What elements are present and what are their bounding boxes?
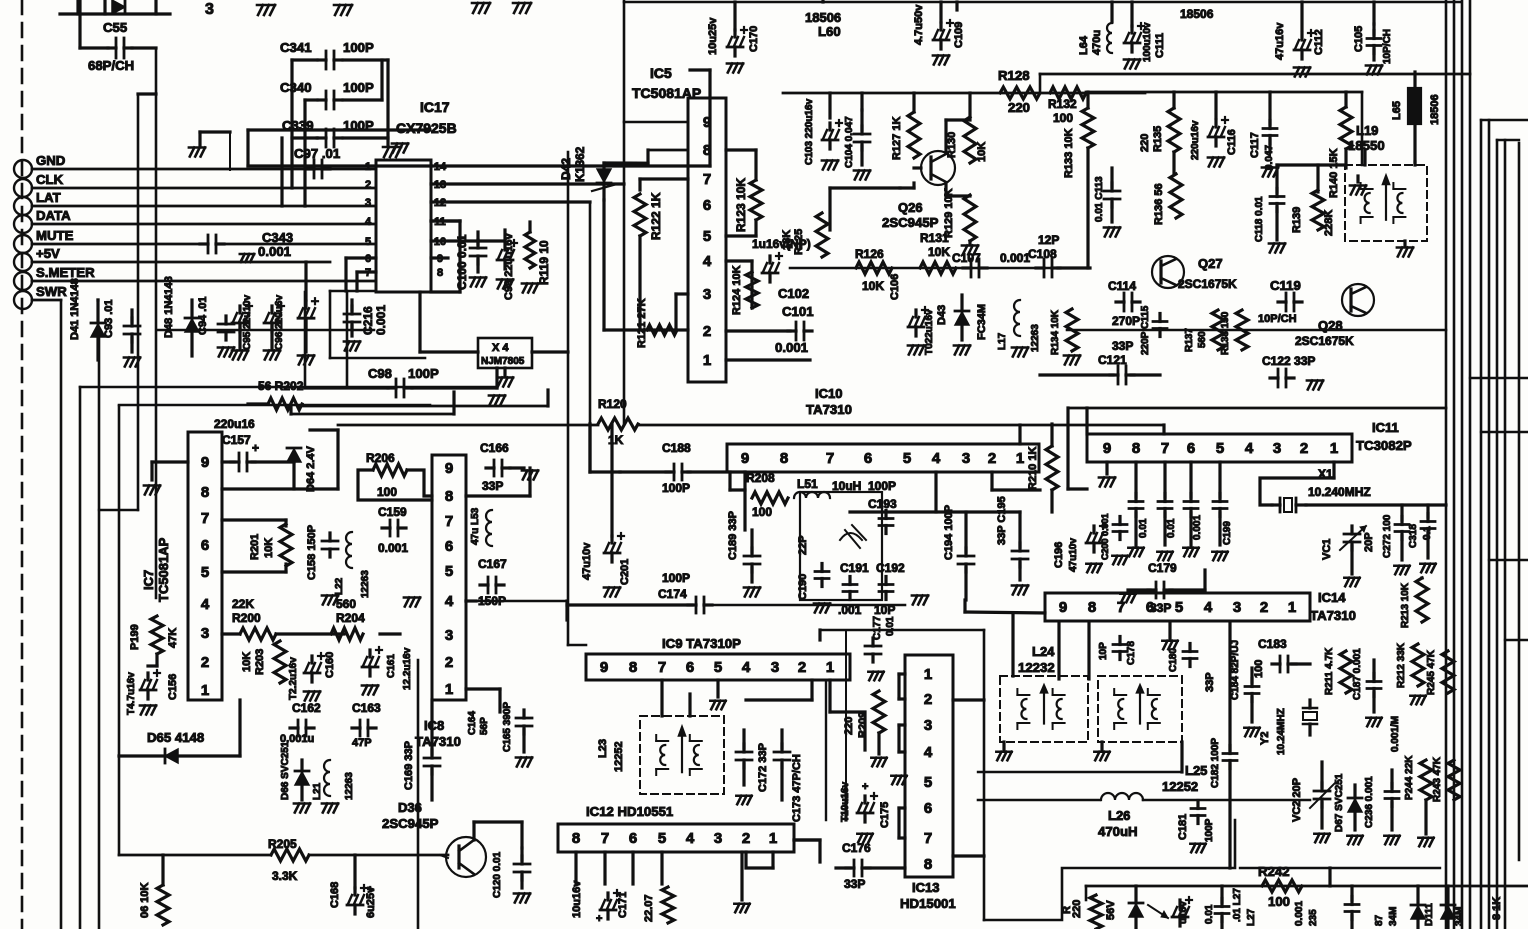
- inductor L53: [486, 510, 492, 546]
- svg-text:220u16v: 220u16v: [1190, 120, 1201, 160]
- wire LAT bus: [32, 205, 376, 208]
- svg-text:T10u16v: T10u16v: [840, 782, 851, 822]
- IC17 pin 8 number: [437, 267, 443, 279]
- svg-text:C190: C190: [797, 574, 809, 600]
- capacitor C177: [865, 638, 881, 662]
- capacitor C182: [1223, 746, 1237, 769]
- wire D41 top: [96, 298, 99, 301]
- svg-text:u16v: u16v: [1178, 901, 1189, 924]
- resistor R122 label: [649, 192, 663, 240]
- capacitor labels under IC11: [1138, 515, 1233, 545]
- resistor R123 label: [734, 178, 748, 232]
- svg-text:12263: 12263: [1030, 324, 1041, 352]
- IC IC12 label: [586, 804, 673, 819]
- resistor R125: [816, 213, 828, 257]
- wire R210: [1050, 424, 1053, 512]
- svg-text:1: 1: [826, 659, 834, 676]
- wire R124: [726, 261, 752, 308]
- ground (C189): [744, 588, 760, 597]
- svg-text:6: 6: [201, 537, 209, 554]
- svg-text:R201: R201: [249, 534, 261, 560]
- svg-text:TA7310: TA7310: [1310, 608, 1356, 623]
- svg-text:C201: C201: [619, 559, 631, 585]
- svg-text:4: 4: [924, 744, 933, 761]
- svg-text:3: 3: [365, 197, 371, 209]
- wire L64 stub: [1112, 2, 1132, 26]
- svg-text:C102: C102: [778, 286, 809, 301]
- bus vertical 9: [1518, 143, 1521, 860]
- resistor P244: [1420, 760, 1432, 800]
- svg-text:D67 SVC251: D67 SVC251: [1334, 773, 1345, 832]
- crystal X1: [1272, 498, 1306, 512]
- inductor L51: [794, 492, 830, 498]
- wire L65: [1413, 72, 1416, 162]
- svg-text:C122 33P: C122 33P: [1262, 354, 1315, 368]
- svg-text:0.001: 0.001: [1294, 901, 1305, 926]
- wire IC14 pin3 drop: [1228, 623, 1231, 868]
- wire vertical x156: [155, 48, 158, 598]
- wire R127 col: [914, 93, 970, 188]
- wire IC5 pin3 area: [676, 294, 688, 330]
- svg-text:5: 5: [658, 830, 666, 847]
- capacitor C171 label: [617, 892, 629, 918]
- svg-text:C119: C119: [1270, 278, 1301, 293]
- svg-text:470u: 470u: [1091, 30, 1103, 55]
- svg-text:3: 3: [962, 450, 970, 467]
- resistor R120 value: [608, 433, 624, 447]
- capacitor C200: [1113, 517, 1127, 540]
- wire horizontal y330: [158, 329, 374, 332]
- svg-text:IC5: IC5: [650, 65, 672, 81]
- capacitor C163 value: [352, 737, 372, 749]
- resistor R196: [157, 855, 169, 925]
- svg-text:HD15001: HD15001: [900, 896, 956, 911]
- svg-text:100: 100: [752, 505, 772, 519]
- wire C188: [590, 424, 745, 472]
- capacitor C188 value: [662, 481, 690, 495]
- svg-text:33P: 33P: [1112, 339, 1133, 353]
- svg-text:6: 6: [686, 659, 694, 676]
- svg-text:R206: R206: [366, 451, 395, 465]
- svg-text:R245 47K: R245 47K: [1426, 649, 1437, 695]
- svg-text:100: 100: [1253, 660, 1265, 678]
- capacitor C156 name: [167, 674, 179, 700]
- svg-text:C158 150P: C158 150P: [306, 525, 318, 580]
- capacitor C173 label: [791, 754, 803, 822]
- IC IC14 TA7310: [1045, 593, 1310, 621]
- capacitor C172 caps: [736, 730, 790, 800]
- wire CLK bus: [32, 187, 376, 190]
- diode D41: [91, 300, 105, 360]
- capacitor C159: [382, 520, 406, 536]
- IC IC10 label: [806, 386, 852, 417]
- inductor L21: [324, 760, 330, 796]
- svg-text:R127 1K: R127 1K: [891, 117, 903, 160]
- capacitor C171 (electrolytic): [600, 890, 620, 919]
- svg-text:12252: 12252: [1162, 779, 1198, 794]
- svg-text:.01 L27: .01 L27: [1232, 888, 1243, 922]
- capacitor C97: [306, 160, 330, 178]
- svg-text:1: 1: [703, 352, 711, 369]
- svg-text:VC1: VC1: [1321, 539, 1333, 560]
- wire IC17 pin7 stub: [357, 272, 376, 291]
- IC IC13 HD15001: [905, 655, 953, 877]
- svg-text:IC7: IC7: [141, 570, 156, 590]
- resistor R202 label: [258, 379, 304, 393]
- svg-text:9: 9: [1103, 440, 1111, 457]
- diode D41 label: [69, 278, 81, 340]
- wire IC8 pin8: [466, 468, 530, 496]
- svg-text:6: 6: [864, 450, 872, 467]
- svg-text:2: 2: [924, 691, 932, 708]
- svg-text:0.01: 0.01: [1138, 518, 1149, 538]
- wire R120 long: [338, 425, 1164, 434]
- svg-text:2SC945P: 2SC945P: [382, 816, 439, 831]
- bus vertical 5: [1480, 120, 1483, 929]
- wire L26 row: [978, 799, 1310, 802]
- ground (C179 l): [1120, 594, 1135, 603]
- svg-text:12P: 12P: [1038, 233, 1059, 247]
- svg-text:228K: 228K: [1323, 210, 1335, 236]
- wire X1 right: [1306, 503, 1446, 506]
- wire IC10 pin4 drop: [850, 472, 1020, 512]
- wire R206 box: [358, 470, 432, 500]
- ground (C95): [232, 324, 248, 360]
- svg-text:L65: L65: [1391, 101, 1403, 120]
- net label +5V: [36, 246, 60, 261]
- svg-text:47u10v: 47u10v: [1068, 538, 1079, 572]
- svg-text:9: 9: [703, 114, 711, 131]
- bus vertical 4: [1469, 0, 1472, 929]
- capacitor C118 label: [1254, 196, 1265, 242]
- svg-text:4: 4: [932, 450, 941, 467]
- capacitor C114 value: [1112, 314, 1140, 328]
- wire bot right net: [1240, 868, 1440, 886]
- wire R200 row: [222, 632, 400, 635]
- resistor R213: [1416, 578, 1428, 622]
- resistor R206 label: [366, 451, 395, 465]
- capacitor C192: [879, 577, 893, 600]
- resistor R132: [1050, 87, 1086, 99]
- crystal Y2: [1303, 700, 1317, 735]
- capacitor C? electrolytic nr IC5: [762, 253, 782, 282]
- capacitor VC2 (trimmer): [1310, 762, 1336, 828]
- svg-text:3: 3: [1233, 599, 1241, 616]
- ground (C195): [1012, 586, 1028, 595]
- wire IC5 pin8 right: [726, 150, 756, 180]
- svg-text:7: 7: [601, 830, 609, 847]
- IF transformer L25: [1098, 676, 1182, 742]
- svg-text:1: 1: [1288, 599, 1296, 616]
- top-left cut box: [60, 0, 170, 14]
- svg-text:9: 9: [445, 460, 453, 477]
- wire IC13 left col: [845, 630, 847, 820]
- svg-text:C104 0.047: C104 0.047: [844, 116, 855, 168]
- svg-text:4: 4: [686, 830, 695, 847]
- svg-text:D41 1N4148: D41 1N4148: [69, 278, 81, 340]
- svg-text:470uH: 470uH: [1098, 824, 1138, 839]
- ground (D67): [1347, 836, 1362, 845]
- resistor R242 value: [1268, 894, 1290, 909]
- svg-text:1: 1: [445, 681, 453, 698]
- svg-text:0.001: 0.001: [374, 305, 388, 335]
- svg-text:C187 0.001: C187 0.001: [1352, 648, 1363, 700]
- svg-text:12263: 12263: [360, 570, 371, 598]
- svg-text:C180: C180: [1168, 648, 1179, 672]
- wire IC7 pin9: [152, 462, 188, 480]
- ground (X4): [497, 368, 513, 387]
- wire L23 top: [662, 680, 690, 716]
- svg-text:L60: L60: [818, 24, 841, 39]
- svg-text:0.01: 0.01: [885, 616, 896, 636]
- capacitor C118: [1270, 165, 1284, 240]
- svg-text:R135: R135: [1152, 126, 1164, 152]
- IC IC7 TC5081AP: [188, 432, 222, 700]
- wire X1: [1260, 462, 1334, 505]
- wire R133 col: [1086, 92, 1089, 268]
- diode D65 label: [147, 730, 204, 745]
- capacitor C160 name: [324, 652, 336, 678]
- wire IC17 pin14: [248, 130, 431, 166]
- IC IC17 CX7925B: [376, 160, 431, 292]
- ground (top c): [472, 3, 490, 13]
- IC IC5 label: [632, 65, 701, 101]
- svg-text:20P: 20P: [1363, 532, 1375, 552]
- svg-text:7: 7: [924, 830, 932, 847]
- inductor L22: [346, 532, 352, 568]
- label C?0.01: [1204, 904, 1215, 924]
- svg-text:6u25v: 6u25v: [365, 886, 377, 918]
- wire C109 stub: [941, 2, 957, 22]
- ground (IC13 mid): [891, 776, 906, 785]
- capacitor C101 value: [775, 340, 808, 355]
- connector pad MUTE: [14, 235, 32, 253]
- ground (R210): [1099, 462, 1115, 487]
- svg-text:IC8: IC8: [424, 718, 444, 733]
- svg-text:C159: C159: [378, 505, 407, 519]
- svg-text:C160: C160: [324, 652, 336, 678]
- capacitor C99 (electrolytic): [497, 240, 517, 269]
- capacitor C318: [1421, 505, 1435, 558]
- capacitor VC1 label: [1321, 539, 1333, 560]
- connector pad CLK: [14, 179, 32, 197]
- resistor R120 label: [598, 397, 627, 411]
- wire cap ladder right: [343, 60, 388, 145]
- capacitor C184 label: [1230, 640, 1241, 700]
- ground (C160): [304, 692, 320, 701]
- svg-text:L17: L17: [997, 332, 1008, 350]
- resistor R201: [280, 524, 292, 566]
- svg-text:C118 0.01: C118 0.01: [1254, 196, 1265, 242]
- capacitor C162 value: [280, 733, 314, 745]
- capacitor C170 (electrolytic): [727, 27, 747, 56]
- IC17 pin 11 number: [434, 216, 446, 228]
- ground (C111): [1124, 60, 1140, 69]
- capacitor C119 label: [1270, 278, 1301, 293]
- wire C98: [305, 368, 497, 388]
- svg-text:Q27: Q27: [1198, 256, 1223, 271]
- svg-text:0.001: 0.001: [1192, 515, 1203, 540]
- capacitor C161 (electrolytic): [362, 647, 382, 676]
- svg-text:10u25v: 10u25v: [707, 17, 719, 55]
- svg-text:C114: C114: [1108, 279, 1136, 293]
- wire horizontal y387: [80, 386, 497, 389]
- inductor L64 label: [1078, 30, 1103, 55]
- ground (top a): [257, 5, 275, 15]
- inductor L21 label: [312, 782, 323, 800]
- inductor L65 label: [1391, 101, 1403, 120]
- IC IC8 TA7310: [432, 455, 466, 700]
- capacitor C193: [879, 511, 893, 534]
- label R8 1K: [1491, 897, 1503, 920]
- svg-text:C165 390P: C165 390P: [502, 702, 513, 752]
- svg-text:IC11: IC11: [1372, 420, 1399, 435]
- svg-text:R126: R126: [855, 247, 884, 261]
- diode D66 (varicap): [295, 760, 309, 800]
- wire C173 col: [746, 680, 865, 750]
- ground (pin14 stub): [392, 144, 408, 153]
- capacitor C121 label: [1098, 339, 1133, 367]
- svg-text:0.001: 0.001: [775, 340, 808, 355]
- svg-text:SWR: SWR: [36, 284, 67, 299]
- inductor L61 label: [1180, 7, 1214, 21]
- capacitor C111 label: [1142, 22, 1166, 62]
- ground (u11 d): [1212, 552, 1227, 561]
- capacitor C113 label: [1094, 176, 1105, 222]
- svg-text:235: 235: [1308, 909, 1319, 926]
- capacitor C? (electrolytic 3rd): [298, 298, 318, 327]
- svg-text:6: 6: [1146, 599, 1154, 616]
- wire Q26 base left: [830, 188, 914, 230]
- capacitor C122: [1270, 369, 1294, 387]
- svg-text:C111: C111: [1154, 33, 1166, 58]
- svg-text:6: 6: [445, 538, 453, 555]
- svg-text:100P: 100P: [343, 80, 374, 95]
- svg-text:C343: C343: [262, 230, 293, 245]
- IC IC14 label: [1310, 590, 1356, 623]
- svg-text:D111: D111: [1424, 903, 1435, 926]
- svg-text:Y2: Y2: [1259, 732, 1271, 745]
- ground (C170): [727, 64, 743, 73]
- label 0.001 235: [1294, 901, 1319, 926]
- inductor L26 label: [1098, 808, 1138, 839]
- diode D42: [592, 163, 617, 200]
- wire IC5 pin2 right: [726, 329, 790, 332]
- svg-text:0.001: 0.001: [378, 541, 408, 555]
- svg-text:C109: C109: [953, 22, 965, 48]
- capacitor C103 (electrolytic): [822, 120, 842, 149]
- capacitor C166 label: [480, 441, 509, 455]
- svg-text:R213 10K: R213 10K: [1400, 582, 1411, 628]
- resistor R203 label: [241, 649, 266, 675]
- svg-text:9: 9: [741, 450, 749, 467]
- IC IC11 TC3082P: [1087, 434, 1352, 462]
- svg-text:5: 5: [703, 228, 711, 245]
- ground (C172): [736, 796, 751, 805]
- svg-text:TA7310: TA7310: [415, 734, 461, 749]
- crystal Y2 label: [1259, 708, 1287, 755]
- svg-text:L21: L21: [312, 782, 323, 800]
- svg-text:6: 6: [924, 800, 932, 817]
- svg-text:C164: C164: [467, 711, 478, 735]
- resistor R135 label: [1139, 126, 1164, 152]
- capacitor C101: [788, 322, 812, 340]
- IC IC9 label: [662, 636, 741, 651]
- svg-text:3: 3: [445, 627, 453, 644]
- svg-text:7: 7: [658, 659, 666, 676]
- svg-text:0.01: 0.01: [1166, 518, 1177, 538]
- ground (C117): [1262, 168, 1278, 177]
- svg-text:C192: C192: [876, 561, 905, 575]
- resistor R204 label: [336, 597, 365, 625]
- wire R139 top: [1277, 165, 1344, 192]
- capacitor Cc: [1215, 886, 1229, 929]
- wire IC8 pin1 right: [466, 689, 500, 712]
- capacitor C184: [1245, 668, 1259, 722]
- svg-text:C162: C162: [292, 701, 321, 715]
- svg-text:2: 2: [1260, 599, 1268, 616]
- ground (C318): [1420, 564, 1435, 573]
- ground (u11 a): [1128, 548, 1143, 557]
- svg-text:5: 5: [445, 563, 453, 580]
- bus stub a: [1481, 119, 1528, 121]
- wire vertical x119: [118, 406, 121, 855]
- label T10u16v: [840, 781, 868, 822]
- wire vertical x624: [623, 0, 626, 424]
- resistor R206: [373, 464, 407, 476]
- capacitor C339 label: [282, 118, 314, 133]
- capacitor C158: [322, 533, 338, 557]
- svg-text:K1362: K1362: [573, 146, 587, 182]
- wire IC12 right step: [794, 840, 820, 862]
- capacitor C163: [352, 720, 376, 736]
- resistor R128: [1000, 87, 1040, 99]
- wire IC9 pin1 drop: [794, 680, 826, 840]
- svg-text:P199: P199: [129, 624, 141, 650]
- wire C174: [567, 603, 905, 606]
- capacitor C341 label: [280, 40, 312, 55]
- svg-text:18506: 18506: [1429, 94, 1441, 125]
- wire R213: [1420, 576, 1423, 579]
- capacitor C157 label: [214, 417, 255, 447]
- resistor R211 label: [1324, 647, 1335, 695]
- capacitor C158 label: [306, 525, 318, 580]
- connector pad SWR: [14, 291, 32, 309]
- ground (VC2): [1314, 834, 1329, 843]
- capacitor C94 label: [197, 296, 209, 335]
- wire IC13 right col: [953, 630, 984, 920]
- svg-text:4: 4: [703, 253, 712, 270]
- capacitor C156 label: [126, 672, 137, 715]
- wire mid right h330: [1067, 329, 1446, 332]
- svg-text:IC10: IC10: [815, 386, 842, 401]
- svg-text:1: 1: [1016, 450, 1024, 467]
- IC17 pin 13 number: [434, 179, 446, 191]
- resistor R132 label: [1048, 97, 1077, 125]
- resistor R213 label: [1400, 582, 1411, 628]
- wire IC5 pin7: [640, 179, 688, 190]
- ground (C113 col): [1104, 228, 1120, 237]
- svg-text:47P: 47P: [352, 737, 372, 749]
- svg-text:0.001/M: 0.001/M: [1390, 716, 1401, 752]
- svg-text:8: 8: [437, 267, 443, 279]
- capacitor C160 (electrolytic): [304, 653, 324, 682]
- capacitor C170 name: [748, 26, 760, 52]
- svg-text:2: 2: [798, 659, 806, 676]
- svg-text:8: 8: [201, 484, 209, 501]
- inductor L23 label: [597, 739, 625, 772]
- wire GND bus: [32, 168, 376, 171]
